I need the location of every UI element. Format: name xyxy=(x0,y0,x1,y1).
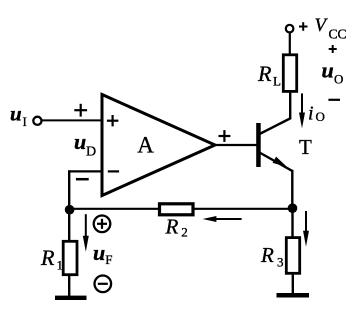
terminal +VCC (circle) xyxy=(286,25,294,33)
ground (right) xyxy=(277,293,310,298)
transistor T collector diagonal xyxy=(260,118,292,134)
wire: collector vertical up to RL xyxy=(289,92,291,119)
svg-text:O: O xyxy=(334,72,343,87)
svg-text:A: A xyxy=(137,132,154,157)
svg-text:2: 2 xyxy=(181,225,188,240)
current arrow (R3 current, downward) xyxy=(303,211,309,247)
svg-text:D: D xyxy=(86,145,96,160)
label + (uO polarity top) xyxy=(329,45,337,53)
label R_2 xyxy=(165,214,188,239)
label V_CC xyxy=(315,15,347,42)
transistor T emitter diagonal with arrow xyxy=(260,153,293,171)
label - (below inverting wire) xyxy=(76,178,89,181)
svg-text:u: u xyxy=(93,240,105,265)
svg-text:I: I xyxy=(23,114,27,129)
svg-text:CC: CC xyxy=(329,27,347,42)
svg-text:R: R xyxy=(260,243,274,267)
wire: bottom horizontal (node to node) xyxy=(69,208,293,210)
wire: inverting input vertical down to node xyxy=(68,170,70,209)
label - (uO polarity bottom) xyxy=(328,99,340,101)
label u_O xyxy=(322,58,344,87)
wire: node down to R1 xyxy=(68,210,70,242)
resistor R1 xyxy=(63,241,77,274)
svg-text:3: 3 xyxy=(277,255,284,270)
ground (left) xyxy=(55,296,87,300)
wire: op-amp output to transistor base xyxy=(215,144,257,146)
resistor R3 xyxy=(286,238,299,274)
node: emitter junction dot xyxy=(288,203,298,213)
label R_3 xyxy=(260,243,284,270)
current arrow (pointing left, feedback current) xyxy=(203,216,242,222)
label + (above output wire) xyxy=(219,130,231,142)
polarity symbol circle-plus xyxy=(94,216,111,233)
svg-text:u: u xyxy=(322,58,334,83)
transistor T (base bar) xyxy=(256,123,261,167)
current arrow i_O xyxy=(299,93,305,128)
svg-text:F: F xyxy=(105,252,112,267)
svg-text:R: R xyxy=(165,214,179,238)
svg-text:R: R xyxy=(40,245,55,270)
wire: RL up to VCC terminal xyxy=(289,33,291,55)
label + (VCC) xyxy=(299,22,308,31)
label R_1 xyxy=(40,245,63,273)
svg-text:u: u xyxy=(74,129,86,154)
current arrow u_F (downward) xyxy=(83,214,89,252)
label u_D xyxy=(74,129,96,160)
label u_F xyxy=(93,240,113,267)
wire: inverting input horizontal xyxy=(68,170,102,172)
svg-text:u: u xyxy=(10,102,22,126)
input terminal (circle) xyxy=(33,117,41,125)
emitter arrowhead xyxy=(273,157,287,167)
wire: R1 to ground xyxy=(68,275,70,297)
svg-text:T: T xyxy=(299,135,312,159)
wire: input to op-amp noninverting xyxy=(41,119,101,121)
node: feedback junction dot xyxy=(65,205,75,215)
svg-text:O: O xyxy=(316,109,325,124)
svg-text:1: 1 xyxy=(57,258,64,273)
svg-text:i: i xyxy=(308,103,314,125)
label R_L xyxy=(257,61,281,89)
label + (above input wire) xyxy=(74,104,87,117)
label + (inside op-amp, noninverting) xyxy=(107,115,119,126)
label u_I xyxy=(10,102,27,130)
wire: R3 to ground xyxy=(292,273,294,294)
resistor R2 xyxy=(160,204,194,215)
op-amp U1 triangle xyxy=(102,95,215,196)
svg-text:L: L xyxy=(273,74,281,89)
label i_O xyxy=(308,103,325,125)
resistor RL xyxy=(283,55,296,92)
wire: right node down to R3 xyxy=(291,208,293,238)
label - (inside op-amp, inverting) xyxy=(108,170,119,172)
polarity symbol circle-minus xyxy=(95,276,112,293)
svg-text:R: R xyxy=(257,61,272,86)
wire: emitter vertical down to node xyxy=(291,170,293,208)
